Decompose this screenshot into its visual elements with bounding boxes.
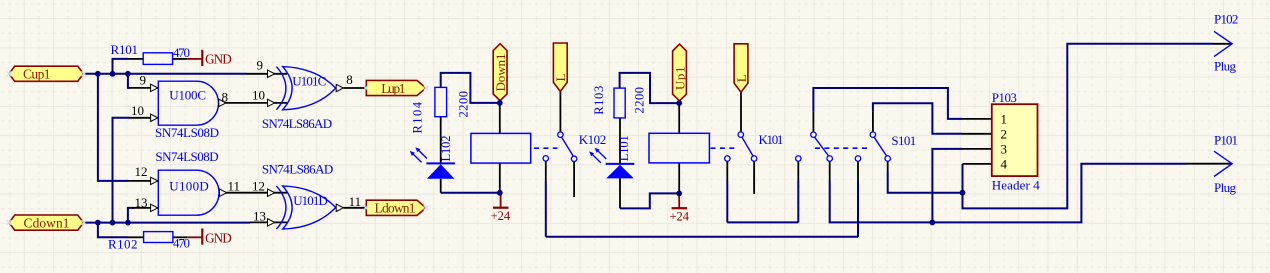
XOR gate U101C (276, 67, 286, 110)
svg-text:8: 8 (346, 72, 353, 87)
resistor R104 (435, 87, 447, 116)
svg-text:S101: S101 (891, 133, 916, 148)
port Cup1 (9, 66, 84, 81)
svg-text:L: L (553, 74, 568, 82)
node Cup1-R102col (95, 71, 101, 77)
pin arrow U100D.12 (151, 177, 158, 184)
wire R101 to Cup1 (113, 59, 129, 74)
svg-text:P103: P103 (992, 90, 1017, 105)
LED L102 (426, 162, 455, 164)
svg-text:Ldown1: Ldown1 (375, 201, 416, 216)
pin right R102 (173, 236, 187, 238)
svg-text:2200: 2200 (457, 91, 471, 118)
pin arrow U100C.8 out (219, 99, 226, 106)
hotspot crosses at port connections (7, 71, 429, 225)
wire K101B right to P101 bus (830, 164, 1187, 223)
svg-text:U100C: U100C (169, 88, 206, 103)
svg-text:Lup1: Lup1 (381, 81, 405, 96)
resistor R102 (144, 232, 173, 243)
svg-text:Cdown1: Cdown1 (24, 215, 70, 230)
svg-text:SN74LS86AD: SN74LS86AD (262, 161, 333, 176)
svg-text:L: L (734, 74, 749, 82)
wire K101B left down (797, 181, 799, 222)
ground GND top (187, 58, 201, 60)
svg-text:P101: P101 (1214, 132, 1238, 147)
switch K102 (562, 137, 574, 156)
svg-text:L102: L102 (439, 136, 453, 162)
svg-text:2: 2 (1001, 127, 1008, 142)
node Down1 (497, 100, 503, 106)
node +24 left (497, 190, 503, 196)
wire Cdown1 to R102 (98, 223, 128, 238)
switch S101 (874, 137, 887, 156)
AND gate U100D (158, 170, 219, 215)
svg-text:Up1: Up1 (672, 67, 687, 91)
pin arrow U101C.9 (268, 70, 275, 77)
pin K101B right contact (829, 161, 831, 181)
actuation dash K101 (711, 147, 738, 149)
relay coil K102 (471, 133, 531, 163)
port Ldown1 (366, 200, 426, 215)
power +24 right (678, 193, 680, 208)
wire Cdown1 to U100D pin 13 (128, 208, 134, 223)
pin P101 plug (1187, 163, 1232, 165)
node Cup1-pin9col (125, 71, 131, 77)
pin K102 coil bottom (499, 163, 501, 193)
port Up1 (vertical) (673, 44, 687, 101)
svg-text:+24: +24 (491, 209, 511, 223)
svg-text:4: 4 (1001, 156, 1008, 171)
wire S101 common to P103 pin2 (873, 103, 962, 134)
svg-text:GND: GND (205, 230, 232, 245)
pin K101A right contact stub (753, 161, 755, 194)
node Up1 (676, 100, 682, 106)
pin P103 pin3 (962, 148, 992, 150)
svg-text:12: 12 (252, 179, 265, 194)
wire P103 pin3 to bus (932, 149, 962, 223)
pin K102 coil top (499, 103, 501, 133)
pin K101 coil bottom (678, 163, 680, 194)
actuation dash S101 (815, 147, 868, 149)
port L (first, vertical) (553, 43, 567, 91)
svg-text:Plug: Plug (1214, 180, 1237, 195)
svg-text:Header 4: Header 4 (992, 178, 1041, 193)
svg-text:+24: +24 (670, 210, 690, 224)
svg-text:10: 10 (252, 87, 265, 102)
pin arrow U101C.10 (268, 99, 275, 106)
wire U100D.11 to U101D.12 (219, 192, 287, 194)
svg-text:470: 470 (173, 45, 190, 60)
node pin3 bus (930, 220, 936, 226)
pin L102 bottom (440, 179, 442, 193)
svg-text:13: 13 (253, 209, 266, 224)
svg-text:1: 1 (1001, 112, 1008, 127)
relay coil K101 (649, 133, 709, 163)
svg-text:U101D: U101D (293, 193, 328, 208)
wire K101A left to lower link (726, 181, 728, 222)
wire Down1 port stub (499, 100, 501, 103)
pin L101 bottom (619, 178, 621, 208)
pin K102 right contact stub (573, 162, 575, 197)
pin arrow U100C.10 (151, 114, 158, 121)
wire Up1 port stub (679, 101, 681, 103)
port L (second, vertical) (734, 44, 748, 92)
ground GND bottom (187, 236, 201, 238)
wire U100C.8 to U101C.10 (219, 102, 288, 104)
svg-text:Down1: Down1 (493, 54, 508, 92)
port Down1 (vertical) (493, 44, 507, 101)
port Cdown1 (9, 215, 84, 230)
pin left R101 (128, 58, 143, 60)
svg-text:Plug: Plug (1214, 59, 1237, 74)
svg-text:R103: R103 (592, 86, 606, 115)
svg-text:SN74LS08D: SN74LS08D (155, 125, 219, 140)
pin L port2 to K101 switch (740, 92, 742, 131)
pin L102 anode chain (R104 bottom to LED) (440, 117, 442, 164)
pin K101 coil top (678, 103, 680, 133)
connector P103 Header 4 (992, 104, 1038, 176)
svg-text:8: 8 (222, 90, 229, 105)
pin 13 U100D (132, 207, 158, 209)
svg-text:11: 11 (228, 179, 241, 194)
svg-text:2200: 2200 (633, 87, 647, 114)
svg-text:P102: P102 (1214, 12, 1238, 27)
pin L port1 to K102 switch (559, 91, 561, 131)
pin S101 common up (872, 111, 874, 131)
switch K101 B (815, 137, 829, 156)
svg-text:R101: R101 (111, 42, 139, 57)
resistor R101 (143, 53, 172, 65)
wire Cup1 net (84, 73, 247, 75)
wire link K101A-left to K101B-left (727, 221, 798, 223)
pin arrow U101D.13 (268, 219, 275, 226)
plug P102 (1214, 31, 1232, 56)
wire S101 left to bus (857, 181, 859, 237)
node +24 right (676, 191, 682, 197)
pin 12 U100D (128, 180, 158, 182)
pin K101B common up (812, 111, 814, 131)
plug P101 (1214, 151, 1232, 176)
wire U101C.8 to Lup1 (344, 87, 367, 89)
pin K102 left contact (545, 161, 547, 181)
svg-text:9: 9 (257, 57, 264, 72)
pin P103 pin1 (962, 118, 992, 120)
pin arrow U101D.12 (268, 189, 275, 196)
actuation dash K102 (534, 147, 558, 149)
wire R104 top loop to Down1 node (441, 73, 500, 103)
XOR gate U101D (276, 186, 286, 229)
node pin4 S101 (960, 190, 966, 196)
svg-text:10: 10 (131, 103, 144, 118)
pin K101B left contact (797, 161, 799, 181)
node Cdown1-pin13col (125, 220, 131, 226)
pin arrow U100C.9 (151, 84, 158, 91)
svg-text:L101: L101 (617, 135, 631, 161)
svg-text:R102: R102 (108, 236, 138, 251)
pin S101 right contact (887, 161, 889, 172)
wire S101 right to pin4 node (888, 172, 963, 193)
svg-text:3: 3 (1001, 141, 1008, 156)
pin arrow U101D.11 out (336, 204, 343, 211)
pin right R101 (173, 58, 188, 60)
svg-text:13: 13 (135, 195, 148, 210)
svg-text:9: 9 (140, 73, 147, 88)
pin L101 anode chain (R103 bottom to LED) (619, 118, 621, 164)
wire K101B common to P103 pin1 (813, 88, 962, 119)
svg-text:Cup1: Cup1 (23, 67, 51, 82)
wire R103 top loop to Up1 node (620, 73, 680, 103)
wire U101D.11 to Ldown1 (344, 207, 367, 209)
switch K101 A (742, 137, 753, 156)
node Cdown1-R102col (95, 220, 101, 226)
svg-text:11: 11 (349, 194, 362, 209)
wire Cdown1 to U100C pin 10 (113, 118, 131, 223)
pin 10 U100C (129, 117, 158, 119)
pin arrow U101C.8 out (336, 84, 343, 91)
pin 9 U100C (129, 87, 158, 89)
pin arrow U100D.11 out (220, 189, 227, 196)
pin P102 plug (1213, 43, 1231, 45)
svg-text:K102: K102 (579, 132, 607, 147)
pin 13 U101D (250, 221, 287, 223)
LED L102 emission arrows (418, 149, 428, 158)
LED L101 emission arrows (597, 150, 607, 159)
svg-text:U101C: U101C (292, 74, 326, 89)
svg-text:K101: K101 (759, 132, 784, 147)
pin arrow U100D.13 (151, 204, 158, 211)
power +24 left (500, 193, 502, 208)
wire Cup1 to U100D pin 12 (98, 74, 128, 181)
resistor R103 (614, 88, 625, 118)
LED L101 (606, 163, 635, 165)
wire K102 left contact to bus (545, 181, 547, 237)
wire bus NC contacts (K102 to S101) (546, 236, 858, 238)
wire P103 pin4 to P102 (963, 44, 1214, 209)
wire L102 to +24 node (441, 192, 500, 194)
wire Cdown1 net (84, 222, 250, 224)
svg-text:SN74LS08D: SN74LS08D (155, 149, 218, 164)
port Lup1 (366, 80, 426, 95)
svg-text:GND: GND (205, 52, 232, 67)
svg-text:SN74LS86AD: SN74LS86AD (262, 116, 332, 131)
wire pin 9 U101C (247, 73, 287, 75)
node Cup1-R101col (110, 71, 116, 77)
AND gate U100C (158, 81, 218, 125)
pin P103 pin2 (962, 133, 992, 135)
pin S101 left contact (857, 161, 859, 181)
pin left R102 (128, 236, 144, 238)
pin P103 pin4 (963, 163, 992, 165)
svg-text:U100D: U100D (169, 178, 209, 193)
node Cdown1-pin10col (110, 220, 116, 226)
pin K101A left contact (726, 161, 728, 181)
wire L101 to +24 node jog (620, 193, 679, 208)
svg-text:12: 12 (135, 164, 148, 179)
wire Cup1 to U100C pin 9 (128, 74, 130, 88)
